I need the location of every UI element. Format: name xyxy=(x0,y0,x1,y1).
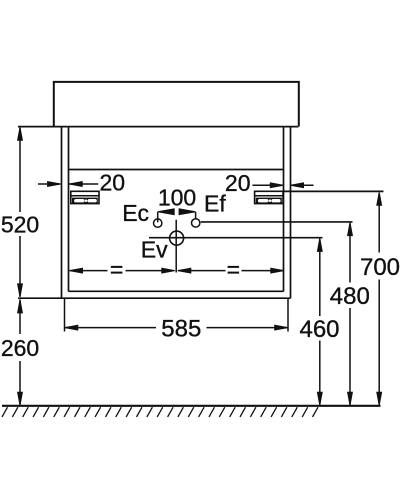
svg-text:=: = xyxy=(110,257,123,283)
svg-text:700: 700 xyxy=(360,254,400,281)
svg-text:520: 520 xyxy=(1,212,39,238)
svg-text:480: 480 xyxy=(330,283,370,310)
svg-text:Ef: Ef xyxy=(204,191,226,217)
svg-text:460: 460 xyxy=(299,316,339,343)
svg-text:585: 585 xyxy=(161,316,201,343)
svg-text:Ec: Ec xyxy=(122,200,149,226)
svg-text:Ev: Ev xyxy=(141,236,168,262)
svg-text:260: 260 xyxy=(1,335,39,361)
svg-text:100: 100 xyxy=(158,184,196,210)
svg-text:20: 20 xyxy=(100,170,126,196)
svg-text:20: 20 xyxy=(225,170,251,196)
svg-text:=: = xyxy=(227,257,240,283)
